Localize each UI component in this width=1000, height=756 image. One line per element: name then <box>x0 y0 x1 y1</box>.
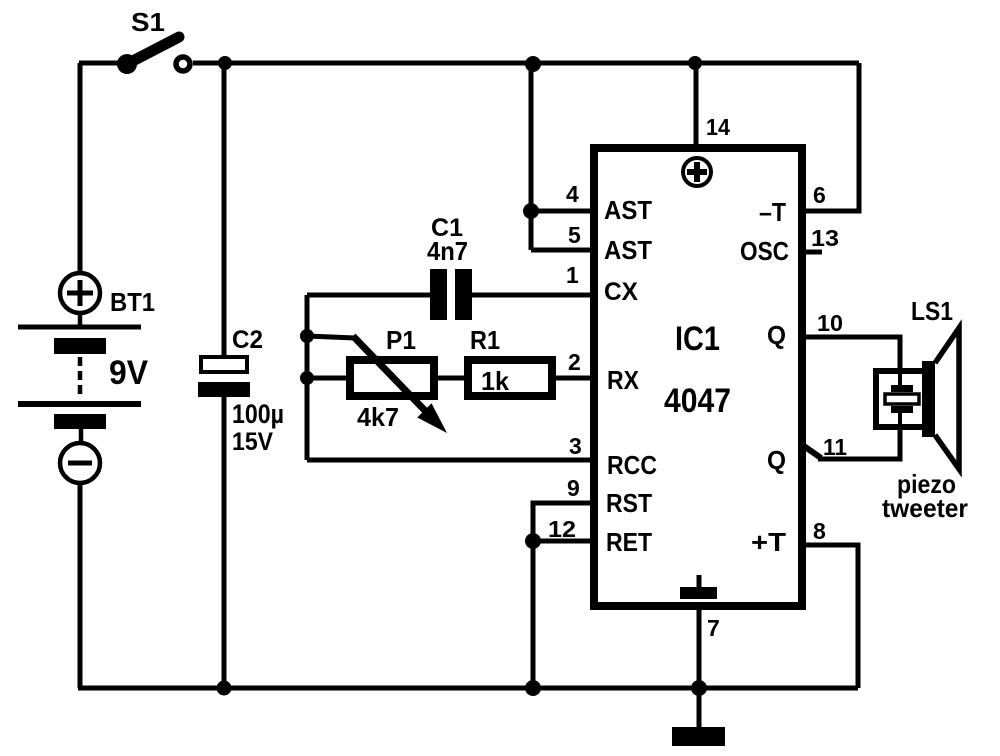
svg-text:+T: +T <box>751 527 786 557</box>
svg-text:R1: R1 <box>470 325 500 355</box>
switch S1 <box>117 37 190 74</box>
svg-text:AST: AST <box>604 235 652 265</box>
svg-text:S1: S1 <box>131 7 165 37</box>
svg-text:C2: C2 <box>232 326 263 354</box>
svg-text:BT1: BT1 <box>110 287 155 317</box>
capacitor C2 <box>198 357 250 397</box>
loudspeaker LS1 <box>876 328 959 469</box>
svg-text:13: 13 <box>811 225 839 251</box>
wire top rail right segment <box>193 61 859 66</box>
wire battery bottom vertical <box>78 483 83 688</box>
svg-text:5: 5 <box>568 222 581 248</box>
wire P1-R1 <box>438 376 464 381</box>
svg-text:tweeter: tweeter <box>882 493 968 523</box>
node pin12 junction <box>525 533 541 549</box>
wire pin 13 stub <box>804 250 822 255</box>
svg-text:CX: CX <box>604 278 638 306</box>
svg-text:9V: 9V <box>109 354 148 392</box>
svg-text:9: 9 <box>567 475 580 501</box>
svg-text:AST: AST <box>604 195 652 225</box>
node top C2 junction <box>218 56 232 70</box>
svg-text:14: 14 <box>706 114 730 140</box>
wire bottom rail <box>78 686 858 691</box>
node bottom C2 junction <box>217 681 232 696</box>
svg-text:10: 10 <box>817 310 843 336</box>
svg-text:12: 12 <box>548 516 576 542</box>
svg-text:6: 6 <box>813 182 826 208</box>
resistor R1 <box>468 360 552 396</box>
IC1 body <box>594 148 802 606</box>
svg-text:Q: Q <box>767 320 786 350</box>
svg-text:RET: RET <box>606 527 652 557</box>
wire P1 wiper arm <box>307 336 355 338</box>
potentiometer P1 arrow <box>353 336 447 433</box>
svg-text:–T: –T <box>759 197 786 227</box>
wire pin 8 <box>804 545 858 688</box>
wire pin 11 <box>818 429 900 459</box>
svg-text:P1: P1 <box>386 325 416 355</box>
wire pin 12 <box>533 539 592 544</box>
svg-text:IC1: IC1 <box>675 320 720 358</box>
wire CX/C1 row <box>307 293 432 298</box>
wire pin 11 diagonal <box>801 444 821 458</box>
node P1 row junction <box>300 371 314 385</box>
IC1 plus marker <box>683 158 711 186</box>
svg-text:4: 4 <box>566 181 579 207</box>
wire top rail left segment <box>79 61 125 66</box>
node pin4 junction <box>523 203 539 219</box>
wire C2 lower vertical <box>222 397 227 688</box>
wire pin 4 <box>531 209 592 214</box>
ground <box>672 688 725 746</box>
svg-text:4047: 4047 <box>664 382 731 420</box>
svg-text:100µ: 100µ <box>232 399 284 429</box>
node top pin14 junction <box>688 56 702 70</box>
wire C2 upper vertical <box>222 63 227 356</box>
node bottom pin9 junction <box>525 680 541 696</box>
svg-text:3: 3 <box>569 433 582 459</box>
svg-text:4k7: 4k7 <box>357 402 399 432</box>
wire pin 6 riser <box>804 63 859 211</box>
svg-text:4n7: 4n7 <box>427 236 468 266</box>
wire pin4/5 vertical <box>529 63 534 250</box>
svg-text:RCC: RCC <box>607 450 657 480</box>
svg-text:LS1: LS1 <box>911 296 953 326</box>
wire pin 9 <box>533 503 592 688</box>
wire battery top vertical <box>78 63 83 274</box>
svg-text:7: 7 <box>707 615 720 641</box>
capacitor C1 <box>430 269 472 320</box>
svg-text:8: 8 <box>813 518 826 544</box>
node top pin4 branch junction <box>525 56 541 72</box>
wire pin 3 RCC <box>307 458 592 463</box>
IC1 ground marker <box>680 575 717 599</box>
battery BT1 <box>18 273 141 483</box>
node pin7 junction <box>691 680 707 696</box>
svg-text:1: 1 <box>566 262 579 288</box>
wire pin 14 <box>694 63 699 148</box>
wire pin 7 <box>697 606 702 688</box>
wire left loop vertical <box>305 295 310 460</box>
wire pin 10 <box>804 337 900 371</box>
svg-text:15V: 15V <box>232 428 273 456</box>
svg-text:2: 2 <box>568 349 581 375</box>
wire pin 5 <box>531 248 592 253</box>
svg-text:Q: Q <box>767 445 786 475</box>
potentiometer P1 body <box>350 360 434 396</box>
wire P1 left <box>307 376 346 381</box>
wire pin 2 <box>556 376 592 381</box>
node wiper junction <box>300 329 314 343</box>
svg-text:OSC: OSC <box>740 236 789 266</box>
svg-text:1k: 1k <box>481 366 510 396</box>
svg-text:11: 11 <box>823 434 847 460</box>
svg-text:RX: RX <box>607 365 640 395</box>
svg-text:RST: RST <box>606 488 652 518</box>
